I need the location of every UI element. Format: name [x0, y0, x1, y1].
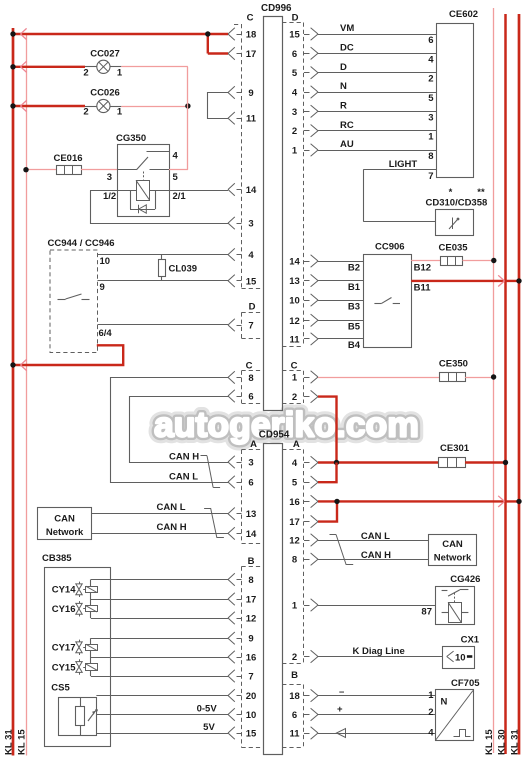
svg-text:6: 6: [292, 49, 297, 60]
svg-text:CS5: CS5: [51, 683, 70, 694]
svg-text:3: 3: [292, 107, 297, 118]
svg-text:1: 1: [292, 373, 298, 384]
svg-text:CAN H: CAN H: [157, 522, 187, 533]
svg-text:CD996: CD996: [261, 3, 292, 14]
svg-text:Network: Network: [46, 527, 84, 538]
svg-text:6: 6: [292, 710, 297, 721]
svg-text:2: 2: [292, 652, 297, 663]
svg-text:5: 5: [292, 68, 298, 79]
svg-text:KL 31: KL 31: [510, 729, 521, 755]
svg-text:14: 14: [246, 529, 257, 540]
svg-text:12: 12: [289, 536, 300, 547]
svg-text:CAN L: CAN L: [157, 502, 186, 513]
svg-text:CY16: CY16: [52, 604, 76, 615]
svg-text:CC027: CC027: [90, 48, 120, 59]
svg-text:B1: B1: [348, 282, 361, 293]
svg-text:2: 2: [292, 126, 297, 137]
svg-text:18: 18: [246, 30, 257, 41]
svg-text:CAN: CAN: [54, 513, 75, 524]
svg-text:1: 1: [117, 107, 123, 118]
svg-text:KL 15: KL 15: [484, 729, 495, 755]
svg-text:R: R: [340, 101, 347, 112]
svg-text:20: 20: [246, 691, 257, 702]
svg-text:CG350: CG350: [116, 133, 146, 144]
svg-text:4: 4: [292, 458, 298, 469]
svg-text:16: 16: [289, 497, 300, 508]
svg-text:3: 3: [248, 458, 253, 469]
svg-text:15: 15: [246, 729, 257, 740]
svg-text:8: 8: [248, 575, 253, 586]
svg-text:LIGHT: LIGHT: [389, 159, 418, 170]
svg-text:A: A: [293, 439, 300, 450]
svg-text:B: B: [291, 670, 298, 681]
svg-text:17: 17: [289, 517, 300, 528]
svg-text:CD954: CD954: [259, 430, 290, 441]
svg-text:CF705: CF705: [451, 678, 480, 689]
svg-text:17: 17: [246, 49, 257, 60]
svg-text:2: 2: [428, 707, 433, 718]
svg-text:11: 11: [246, 114, 257, 125]
svg-text:CE035: CE035: [439, 243, 469, 254]
svg-text:B: B: [248, 556, 255, 567]
svg-text:+: +: [337, 704, 343, 715]
svg-text:CY14: CY14: [52, 585, 76, 596]
svg-text:4: 4: [292, 88, 298, 99]
svg-text:3: 3: [428, 112, 433, 123]
svg-text:K Diag Line: K Diag Line: [353, 646, 405, 657]
svg-text:AU: AU: [340, 139, 354, 150]
svg-text:6: 6: [248, 392, 253, 403]
svg-text:B5: B5: [348, 322, 361, 333]
svg-text:B2: B2: [348, 262, 360, 273]
svg-text:8: 8: [428, 151, 433, 162]
svg-text:4: 4: [428, 54, 434, 65]
svg-text:A: A: [250, 439, 257, 450]
svg-text:5V: 5V: [203, 722, 215, 733]
svg-text:CX1: CX1: [461, 635, 480, 646]
svg-text:5: 5: [292, 478, 298, 489]
svg-text:9: 9: [100, 282, 105, 293]
svg-text:1: 1: [428, 690, 434, 701]
svg-text:CL039: CL039: [169, 263, 198, 274]
svg-text:17: 17: [246, 595, 257, 606]
svg-text:B4: B4: [348, 340, 361, 351]
svg-text:CE602: CE602: [449, 9, 478, 20]
svg-text:B12: B12: [414, 263, 431, 274]
svg-text:2/1: 2/1: [173, 191, 187, 202]
svg-text:DC: DC: [340, 43, 354, 54]
svg-text:1/2: 1/2: [103, 191, 116, 202]
svg-text:C: C: [291, 360, 298, 371]
svg-text:CE350: CE350: [439, 359, 468, 370]
svg-text:14: 14: [289, 257, 300, 268]
svg-text:CAN H: CAN H: [361, 550, 391, 561]
svg-text:11: 11: [289, 334, 300, 345]
svg-text:CY17: CY17: [52, 643, 76, 654]
svg-text:1: 1: [117, 67, 123, 78]
svg-text:6: 6: [428, 35, 433, 46]
svg-text:4: 4: [173, 151, 179, 162]
svg-text:CE016: CE016: [53, 153, 82, 164]
svg-text:D: D: [249, 302, 256, 313]
svg-text:8: 8: [248, 373, 253, 384]
svg-text:N: N: [340, 81, 347, 92]
svg-text:10: 10: [246, 710, 257, 721]
svg-text:CD310/CD358: CD310/CD358: [426, 198, 488, 209]
svg-text:CY15: CY15: [52, 662, 76, 673]
svg-text:CAN L: CAN L: [361, 531, 390, 542]
svg-text:15: 15: [246, 276, 257, 287]
svg-text:10: 10: [289, 296, 300, 307]
svg-text:3: 3: [248, 219, 253, 230]
svg-text:87: 87: [421, 607, 432, 618]
svg-text:B11: B11: [414, 282, 432, 293]
svg-text:12: 12: [246, 614, 257, 625]
svg-text:5: 5: [428, 93, 434, 104]
svg-text:2: 2: [83, 67, 88, 78]
svg-text:C: C: [246, 360, 253, 371]
svg-text:1: 1: [428, 132, 434, 143]
svg-text:**: **: [477, 187, 485, 198]
svg-text:CC906: CC906: [375, 242, 405, 253]
svg-text:KL 31: KL 31: [4, 729, 15, 755]
svg-text:16: 16: [246, 653, 257, 664]
svg-text:CC944 / CC946: CC944 / CC946: [48, 238, 115, 249]
svg-text:CAN H: CAN H: [169, 452, 199, 463]
svg-text:11: 11: [289, 729, 300, 740]
svg-text:18: 18: [289, 691, 300, 702]
svg-text:9: 9: [248, 634, 253, 645]
svg-text:CG426: CG426: [450, 574, 480, 585]
svg-text:2: 2: [428, 74, 433, 85]
svg-text:KL 30: KL 30: [497, 729, 508, 755]
svg-text:13: 13: [246, 509, 257, 520]
svg-text:2: 2: [292, 392, 297, 403]
svg-text:C: C: [247, 13, 254, 24]
svg-text:4: 4: [428, 728, 434, 739]
svg-text:CAN L: CAN L: [169, 471, 198, 482]
svg-text:CE301: CE301: [440, 443, 470, 454]
svg-text:CAN: CAN: [442, 539, 463, 550]
svg-text:B3: B3: [348, 301, 360, 312]
svg-text:9: 9: [248, 88, 253, 99]
svg-text:14: 14: [246, 185, 257, 196]
svg-text:*: *: [449, 187, 453, 198]
svg-text:–: –: [339, 686, 344, 697]
svg-text:7: 7: [248, 672, 253, 683]
svg-text:1: 1: [292, 146, 298, 157]
svg-text:3: 3: [107, 172, 112, 183]
svg-text:6: 6: [248, 478, 253, 489]
svg-text:2: 2: [83, 107, 88, 118]
svg-text:7: 7: [248, 321, 253, 332]
svg-text:D: D: [292, 13, 299, 24]
svg-text:CB385: CB385: [42, 553, 72, 564]
svg-text:4: 4: [248, 250, 254, 261]
svg-text:CC026: CC026: [90, 88, 120, 99]
svg-text:N: N: [441, 696, 448, 707]
svg-text:VM: VM: [340, 23, 354, 34]
svg-text:RC: RC: [340, 120, 354, 131]
svg-text:8: 8: [292, 555, 297, 566]
svg-text:D: D: [340, 62, 347, 73]
svg-text:5: 5: [173, 172, 179, 183]
svg-text:6/4: 6/4: [99, 328, 113, 339]
svg-text:7: 7: [428, 171, 433, 182]
svg-text:13: 13: [289, 276, 300, 287]
svg-text:Network: Network: [434, 552, 472, 563]
svg-text:0-5V: 0-5V: [197, 704, 218, 715]
svg-text:1: 1: [292, 601, 298, 612]
svg-text:12: 12: [289, 316, 300, 327]
svg-text:KL 15: KL 15: [17, 729, 28, 755]
svg-text:15: 15: [289, 30, 300, 41]
svg-text:10: 10: [455, 652, 466, 663]
svg-text:10: 10: [100, 256, 111, 267]
